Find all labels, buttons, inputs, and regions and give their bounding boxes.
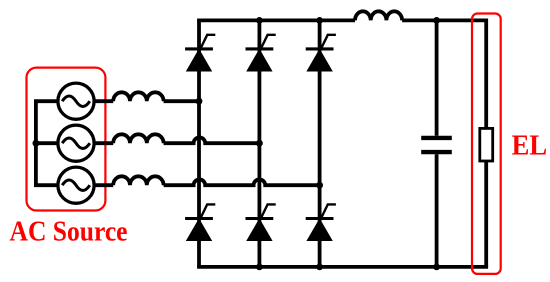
load bottom lead wire [484,161,488,267]
thyristor T6 (bottom leg2) [246,204,276,240]
junction bottom bus / leg3 [316,264,323,271]
junction top bus / leg3 [316,17,323,24]
svg-text:EL: EL [512,130,547,162]
junction bottom bus / leg2 [256,264,263,271]
junction phase C / leg3 [316,182,323,189]
capacitor top lead wire [435,20,439,135]
AC source V2 [58,125,94,161]
junction bottom bus / capacitor [433,264,440,271]
junction on neutral bus [33,140,40,147]
load top lead wire [484,19,488,129]
capacitor C top plate [421,136,452,140]
top DC bus wire (left of choke) [197,18,355,22]
phase C wire with hops over leg 1 and leg 2 [164,179,320,185]
top DC bus wire (right of choke) [402,18,486,22]
bridge leg 3 wire [318,20,322,267]
thyristor T5 (top leg3) [306,35,336,71]
bottom DC bus wire [197,265,488,269]
phase B wire with hop over leg 1 [164,137,260,143]
stub wire to middle source [36,141,58,145]
phase A wire: inductor to leg 1 [164,99,199,103]
red box around load [472,14,501,274]
svg-text:AC Source: AC Source [10,216,128,248]
left neutral bus wire [36,101,58,185]
inductor La [113,92,163,101]
inductor Lc [113,176,163,185]
bridge leg 2 wire [257,20,261,267]
AC source V3 [58,167,94,203]
junction top bus / leg2 [256,17,263,24]
junction top bus / capacitor [433,17,440,24]
thyristor T3 (top leg2) [246,35,276,71]
junction phase A / leg1 [196,98,203,105]
phase C wire: source to inductor [94,183,113,187]
capacitor C bottom plate [421,150,452,154]
inductor Lb [113,134,163,143]
bridge leg 1 wire [197,20,201,267]
junction phase B / leg2 [256,140,263,147]
phase B wire: source to inductor [94,141,113,145]
red box around AC source [27,68,106,211]
thyristor T1 (top leg1) [185,35,215,71]
load resistor box EL [480,128,493,161]
thyristor T2 (bottom leg3) [306,204,336,240]
DC choke Ldc [355,11,402,20]
AC source V1 [58,83,94,119]
phase A wire: source to inductor [94,99,113,103]
thyristor T4 (bottom leg1) [185,204,215,240]
capacitor bottom lead wire [435,154,439,267]
